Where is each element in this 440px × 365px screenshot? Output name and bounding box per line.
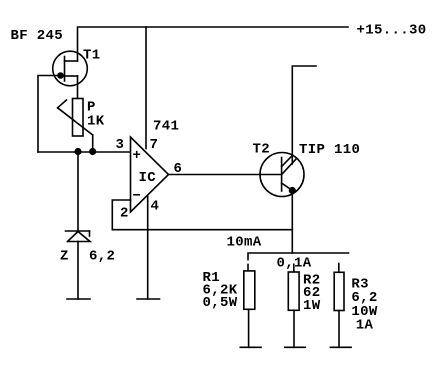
- svg-text:1K: 1K: [87, 114, 105, 130]
- svg-text:741: 741: [153, 119, 179, 135]
- wire: T1 source down to potentiometer: [77, 76, 79, 99]
- svg-text:6,2: 6,2: [89, 249, 115, 265]
- transistor T1 (BF245 JFET): [53, 51, 88, 86]
- ground (R3): [330, 346, 351, 348]
- wire: R2 bottom lead: [293, 310, 295, 347]
- svg-text:T2: T2: [253, 142, 271, 158]
- wire: R3 top lead: [338, 264, 340, 273]
- svg-text:BF 245: BF 245: [11, 28, 64, 44]
- transistor T2 (TIP 110): [260, 153, 304, 197]
- junction: gate dot: [57, 72, 64, 79]
- wire: pin 6 output to T2 base: [169, 174, 282, 176]
- wire: R1 top lead: [247, 264, 249, 271]
- wire: T2 collector up with top stub: [292, 66, 316, 164]
- ground (R2): [285, 346, 306, 348]
- junction: emitter dot: [289, 187, 296, 194]
- ground (R1): [240, 346, 261, 348]
- svg-text:IC: IC: [139, 170, 157, 186]
- wire: T2 emitter down to sense rail: [291, 191, 293, 254]
- wire: R2 top lead: [293, 264, 295, 272]
- wire: positive supply rail with T1 drain drop: [78, 27, 349, 61]
- junction dot: zener branch: [74, 148, 81, 155]
- wire: pin 4 down to ground: [147, 197, 149, 300]
- svg-text:0,5W: 0,5W: [203, 295, 238, 311]
- svg-text:1W: 1W: [303, 298, 321, 314]
- svg-text:T1: T1: [83, 48, 101, 64]
- wire: pin 7 to supply rail: [145, 27, 147, 149]
- svg-text:Z: Z: [60, 249, 69, 265]
- wire: sense rail over resistors: [248, 253, 349, 260]
- svg-text:+15...30: +15...30: [357, 23, 427, 39]
- resistor R3: [334, 272, 344, 310]
- svg-text:10mA: 10mA: [227, 235, 262, 251]
- svg-text:1A: 1A: [356, 318, 374, 334]
- op-amp U1 (741 triangle): [131, 137, 169, 212]
- junction dot: wiper branch: [89, 148, 96, 155]
- wire: R1 bottom lead: [248, 309, 250, 347]
- svg-text:−: −: [133, 189, 142, 205]
- resistor R1: [244, 271, 255, 309]
- svg-text:+: +: [133, 148, 142, 164]
- resistor R2: [288, 272, 299, 310]
- svg-text:3: 3: [116, 137, 125, 153]
- wire: rail down to zener: [77, 152, 79, 231]
- wire: zener to ground: [77, 242, 79, 300]
- zener diode Z 6,2: [66, 231, 91, 242]
- svg-text:4: 4: [151, 199, 160, 215]
- wire: R3 bottom lead: [338, 311, 340, 348]
- svg-text:2: 2: [120, 206, 129, 222]
- wire: T1 gate left and down to input rail: [38, 76, 65, 153]
- ground (pin 4): [137, 298, 160, 300]
- wire: pin 2 feedback loop to emitter sense node: [112, 200, 292, 230]
- svg-text:TIP 110: TIP 110: [299, 142, 360, 158]
- svg-text:7: 7: [150, 137, 159, 153]
- ground (zener): [67, 298, 90, 300]
- potentiometer P 1K: [58, 99, 93, 152]
- wire: non-inverting input rail to op-amp pin 3: [38, 151, 131, 153]
